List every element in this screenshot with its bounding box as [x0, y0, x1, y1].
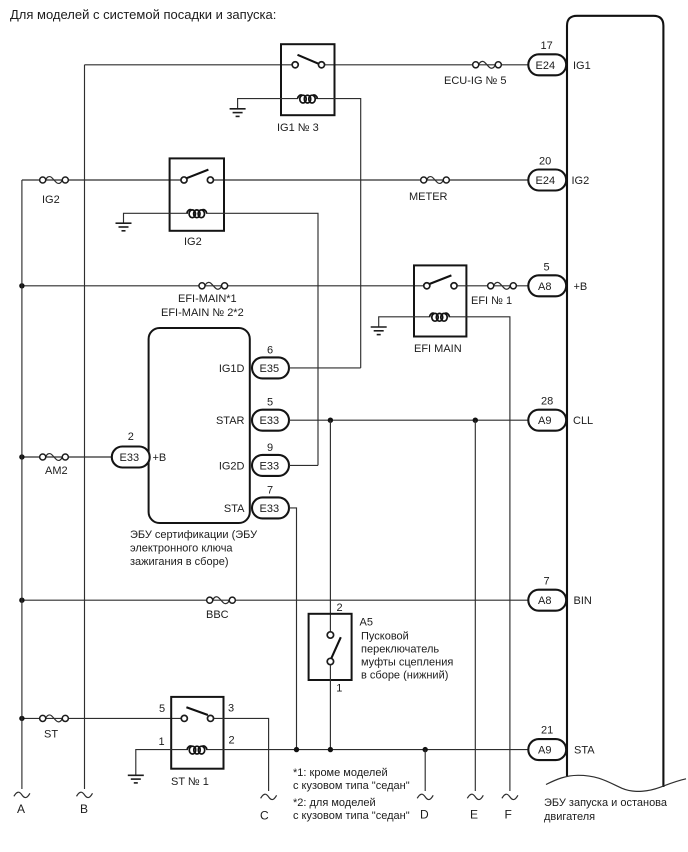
- break B: [77, 792, 93, 797]
- svg-text:ЭБУ сертификации (ЭБУ: ЭБУ сертификации (ЭБУ: [130, 529, 258, 541]
- connector E33 (IG2D): [252, 455, 289, 476]
- svg-text:Пусковой: Пусковой: [361, 631, 409, 643]
- svg-text:7: 7: [544, 576, 550, 588]
- svg-text:в сборе (нижний): в сборе (нижний): [361, 670, 448, 682]
- svg-text:ECU-IG № 5: ECU-IG № 5: [444, 75, 507, 87]
- fuse ECU-IG No 5: [473, 61, 502, 68]
- junction A x ST row: [19, 716, 24, 721]
- svg-text:D: D: [420, 808, 429, 822]
- svg-text:6: 6: [267, 345, 273, 357]
- svg-text:BBC: BBC: [206, 609, 229, 621]
- svg-text:CLL: CLL: [573, 415, 593, 427]
- svg-text:1: 1: [159, 736, 165, 748]
- svg-text:17: 17: [541, 40, 553, 52]
- svg-text:20: 20: [539, 156, 551, 168]
- IG2 coil wire to IG2D riser: [224, 213, 318, 465]
- svg-text:A8: A8: [538, 595, 551, 607]
- fuse AM2: [40, 454, 69, 461]
- svg-text:двигателя: двигателя: [544, 811, 595, 823]
- connector E33 (STA): [252, 497, 289, 518]
- relay IG2 box: [170, 158, 224, 230]
- junction E riser x STAR row: [473, 418, 478, 423]
- svg-text:A8: A8: [538, 281, 551, 293]
- connector E33 (+B cert): [112, 447, 150, 468]
- EFI MAIN switch blade: [429, 275, 451, 284]
- svg-text:C: C: [260, 809, 269, 823]
- wire: BBC row from A to oval A8 BIN: [22, 599, 528, 601]
- break C: [261, 794, 277, 799]
- svg-text:E24: E24: [536, 175, 556, 187]
- connector E24 (IG2): [528, 170, 566, 191]
- wire STAR row to A9 CLL: [289, 419, 528, 421]
- break E: [467, 794, 483, 799]
- svg-text:с кузовом типа "седан": с кузовом типа "седан": [293, 810, 410, 822]
- break A: [14, 792, 30, 797]
- connector E35 (IG1D): [252, 357, 289, 378]
- IG2 coil wire to ground: [124, 213, 170, 223]
- wire IG1D to riser: [289, 367, 361, 369]
- svg-text:28: 28: [541, 396, 553, 408]
- IG1#3 switch contacts: [292, 62, 298, 68]
- fuse EFI No 1: [488, 282, 517, 289]
- fuse BBC: [207, 597, 236, 604]
- svg-text:E24: E24: [536, 60, 556, 72]
- svg-text:ST № 1: ST № 1: [171, 776, 209, 788]
- svg-text:электронного ключа: электронного ключа: [130, 543, 233, 555]
- svg-text:E33: E33: [260, 415, 280, 427]
- svg-text:*2: для моделей: *2: для моделей: [293, 797, 376, 809]
- EFI MAIN coil: [414, 316, 431, 318]
- svg-text:+B: +B: [574, 281, 588, 293]
- A5 switch contacts: [327, 632, 333, 638]
- svg-text:IG1D: IG1D: [219, 363, 245, 375]
- svg-text:A5: A5: [360, 617, 373, 629]
- svg-text:с кузовом типа "седан": с кузовом типа "седан": [293, 780, 410, 792]
- svg-text:IG2: IG2: [572, 175, 590, 187]
- connector E33 (STAR): [252, 410, 289, 431]
- ground (IG1#3): [230, 109, 246, 117]
- svg-text:EFI-MAIN № 2*2: EFI-MAIN № 2*2: [161, 307, 244, 319]
- wire A vertical: [21, 180, 23, 789]
- wire: EFI-MAIN row from A to relay EFI MAIN: [22, 285, 424, 287]
- wire: AM2 row from A to oval E33: [22, 456, 112, 458]
- svg-text:+B: +B: [153, 452, 167, 464]
- IG1#3 coil wire to IG1D riser: [335, 99, 361, 368]
- svg-text:5: 5: [267, 397, 273, 409]
- wire: IG2 row relay to METER fuse to oval: [213, 179, 528, 181]
- wire: IG2 row from A corner to relay IG2: [22, 179, 181, 181]
- connector A9 (STA): [528, 739, 566, 760]
- junction cert STA riser x STA row: [294, 747, 299, 752]
- wire E riser: [474, 420, 476, 791]
- svg-text:IG2D: IG2D: [219, 460, 245, 472]
- clutch start switch A5 box: [309, 614, 352, 680]
- ECU of start-stop system: outer block: [567, 16, 663, 787]
- D riser down: [424, 750, 426, 791]
- svg-text:STAR: STAR: [216, 415, 245, 427]
- fuse ST: [40, 715, 69, 722]
- fuse IG2: [40, 177, 69, 184]
- wire B vertical: [84, 65, 86, 789]
- IG2 coil: [170, 212, 188, 214]
- junction A5 riser x STAR row: [328, 418, 333, 423]
- ST#1 coil wire to ground: [136, 750, 171, 776]
- svg-text:зажигания в сборе): зажигания в сборе): [130, 556, 229, 568]
- svg-text:E35: E35: [260, 363, 280, 375]
- svg-text:9: 9: [267, 442, 273, 454]
- IG2 switch blade: [187, 170, 209, 179]
- EFI MAIN switch contacts: [424, 283, 430, 289]
- svg-text:STA: STA: [574, 745, 595, 757]
- wire: ST row from A to relay ST#1: [22, 717, 181, 719]
- svg-text:METER: METER: [409, 191, 448, 203]
- svg-text:B: B: [80, 802, 88, 816]
- junction D riser x STA row: [423, 747, 428, 752]
- svg-text:муфты сцепления: муфты сцепления: [361, 657, 453, 669]
- svg-text:IG2: IG2: [42, 194, 60, 206]
- ST#1 switch contacts: [181, 715, 187, 721]
- svg-text:1: 1: [336, 683, 342, 695]
- svg-text:7: 7: [267, 485, 273, 497]
- svg-text:EFI-MAIN*1: EFI-MAIN*1: [178, 293, 237, 305]
- A5 wire pin1 down to STA row: [329, 665, 331, 750]
- svg-text:5: 5: [544, 262, 550, 274]
- break D: [417, 794, 433, 799]
- ECU bottom wave: [546, 775, 686, 791]
- wire IG2D to riser: [289, 464, 318, 466]
- svg-text:ST: ST: [44, 729, 58, 741]
- junction A x BBC row: [19, 598, 24, 603]
- svg-text:A9: A9: [538, 415, 551, 427]
- svg-text:EFI MAIN: EFI MAIN: [414, 343, 462, 355]
- ST#1 coil: [171, 749, 188, 751]
- IG1#3 switch blade: [298, 55, 319, 64]
- EFI MAIN coil wire to F riser: [466, 317, 510, 791]
- svg-text:IG2: IG2: [184, 236, 202, 248]
- EFI MAIN coil wire to ground: [379, 317, 414, 327]
- svg-text:5: 5: [159, 703, 165, 715]
- svg-text:21: 21: [541, 725, 553, 737]
- wire: IG1 row from B riser to relay IG1#3: [85, 64, 293, 66]
- IG1#3 coil: [281, 98, 298, 100]
- svg-text:A: A: [17, 802, 25, 816]
- svg-text:IG1: IG1: [573, 60, 591, 72]
- svg-text:EFI № 1: EFI № 1: [471, 295, 512, 307]
- svg-text:2: 2: [229, 735, 235, 747]
- fuse EFI-MAIN: [199, 282, 228, 289]
- ST#1 pin3 wire to C riser: [214, 718, 269, 791]
- relay EFI MAIN box: [414, 265, 466, 336]
- relay IG1 No 3 box: [281, 44, 335, 115]
- svg-text:IG1 № 3: IG1 № 3: [277, 122, 319, 134]
- svg-text:E: E: [470, 808, 478, 822]
- wire STA cert to riser down: [289, 508, 297, 750]
- svg-text:E33: E33: [260, 460, 280, 472]
- relay ST No 1 box: [171, 697, 223, 769]
- IG1#3 coil wire to ground: [238, 99, 281, 109]
- junction A5 riser x STA row: [328, 747, 333, 752]
- wire: STA row from ST#1 coil to oval A9: [224, 749, 529, 751]
- svg-text:F: F: [505, 808, 512, 822]
- A5 switch blade: [331, 637, 341, 658]
- A5 riser wire: [329, 420, 331, 632]
- svg-text:2: 2: [128, 431, 134, 443]
- svg-text:BIN: BIN: [574, 595, 592, 607]
- svg-text:STA: STA: [224, 503, 245, 515]
- connector E24 (IG1): [528, 54, 566, 75]
- svg-text:*1: кроме моделей: *1: кроме моделей: [293, 767, 388, 779]
- fuse METER: [421, 177, 450, 184]
- ground (ST#1): [128, 775, 144, 783]
- junction A x EFI-MAIN row: [19, 283, 24, 288]
- svg-text:E33: E33: [260, 503, 280, 515]
- connector A8 (BIN): [528, 590, 566, 611]
- svg-text:ЭБУ запуска и останова: ЭБУ запуска и останова: [544, 797, 668, 809]
- junction A x AM2 row: [19, 454, 24, 459]
- connector A9 (CLL): [528, 410, 566, 431]
- svg-text:3: 3: [228, 703, 234, 715]
- svg-text:переключатель: переключатель: [361, 644, 439, 656]
- wire: +B row relay to fuse EFI No1 to oval A8: [457, 285, 528, 287]
- certification ECU block: [149, 328, 250, 523]
- svg-text:2: 2: [337, 602, 343, 614]
- svg-text:Для моделей с системой посадки: Для моделей с системой посадки и запуска…: [10, 7, 276, 22]
- connector A8 (+B): [528, 275, 566, 296]
- svg-text:E33: E33: [120, 452, 140, 464]
- ST#1 switch blade: [186, 707, 208, 715]
- ground (EFI MAIN): [371, 327, 387, 335]
- IG2 switch contacts: [181, 177, 187, 183]
- wire: IG1 row relay to fuse and oval E24: [325, 64, 529, 66]
- svg-text:AM2: AM2: [45, 465, 68, 477]
- ground (IG2): [116, 223, 132, 231]
- break F: [502, 794, 518, 799]
- svg-text:A9: A9: [538, 745, 551, 757]
